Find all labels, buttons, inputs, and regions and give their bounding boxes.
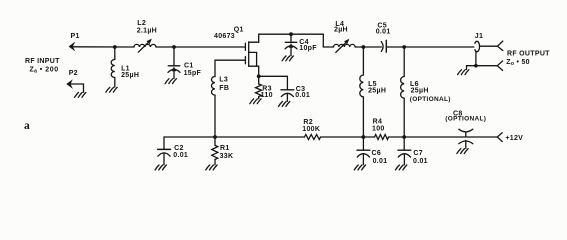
svg-text:100: 100 [372,126,385,133]
ground (C3) [279,102,290,107]
resistor R3 [256,76,273,99]
ground (C6) [354,165,365,170]
inductor L1 [111,47,139,87]
wire L2 to gate 2 [156,46,245,48]
resistor R4 [372,119,389,140]
ground (C4) [282,56,293,61]
svg-text:C7: C7 [413,150,423,157]
svg-text:2.1µH: 2.1µH [137,28,157,35]
wire source to C3 [259,76,288,90]
wire bottom rail left [164,136,305,138]
svg-text:RF OUTPUT: RF OUTPUT [507,51,550,58]
svg-text:0.01: 0.01 [373,158,388,165]
svg-text:+12V: +12V [505,135,523,142]
wire node to R4 [363,136,374,138]
svg-text:FB: FB [219,85,229,92]
ground (L1) [106,87,117,92]
connector P1 [69,33,80,51]
capacitor C4 (variable) [285,34,317,56]
wire P1 to L2 [73,46,135,48]
svg-text:40673: 40673 [214,33,235,40]
node B (L6 tap) [402,45,406,49]
inductor L6 (optional) [401,47,451,137]
inductor L4 (variable) [334,21,356,52]
svg-text:0.01: 0.01 [173,152,188,159]
svg-text:C6: C6 [372,150,382,157]
wire gate 1 to L3 [215,60,245,76]
svg-text:Zo • 50: Zo • 50 [506,59,530,67]
svg-text:R1: R1 [220,145,230,152]
svg-text:0.01: 0.01 [413,158,428,165]
+12V supply pin [497,133,523,142]
capacitor C1 (variable) [168,47,202,79]
node (J1 shield) [474,64,478,68]
svg-text:J1: J1 [475,33,483,40]
ground (P2) [75,92,86,97]
ground (C2) [155,165,166,170]
svg-text:10pF: 10pF [299,45,317,52]
svg-text:L3: L3 [219,77,228,84]
node (L1 tap) [113,45,117,49]
capacitor C3 [281,86,310,101]
wire to L4 [323,46,333,48]
ground (C8) [457,149,468,154]
svg-text:P1: P1 [71,33,80,40]
svg-text:R2: R2 [303,119,313,126]
node (C4 tap) [289,32,293,36]
node (C7 tap) [402,135,406,139]
svg-text:Za • 200: Za • 200 [30,67,59,75]
svg-text:a: a [24,120,30,132]
svg-text:33K: 33K [220,153,234,160]
wire R2 to node [321,136,364,138]
svg-text:RF INPUT: RF INPUT [25,58,60,65]
resistor R2 [302,119,320,140]
svg-text:Q1: Q1 [234,26,244,33]
ground (J1) [458,70,469,75]
svg-text:2µH: 2µH [334,26,348,33]
resistor R1 [212,137,234,165]
capacitor C8 (optional feedthrough) [445,110,486,148]
node (source) [257,74,261,78]
wire drain top rail [259,34,324,47]
svg-text:P2: P2 [69,70,78,77]
svg-text:25µH: 25µH [411,87,429,94]
wire R4 to node [389,136,405,138]
ground (C1) [165,79,176,84]
inductor L2 (variable) [134,20,157,52]
node (R1 tap) [213,135,217,139]
wire bottom rail right [404,136,497,138]
node (C6 tap) [362,135,366,139]
inductor L3 (ferrite bead) [211,77,229,96]
svg-text:100K: 100K [302,126,320,133]
ground (R1) [206,165,217,170]
wire C5 to J1 [386,46,474,48]
svg-text:C1: C1 [184,62,194,69]
svg-text:L2: L2 [137,20,146,27]
transistor Q1 40673 dual-gate MOSFET [214,26,259,75]
inductor L5 [360,47,386,137]
connector P2 [66,70,83,92]
svg-text:25µH: 25µH [368,88,386,95]
capacitor C6 [357,137,387,165]
svg-text:(OPTIONAL): (OPTIONAL) [445,116,486,123]
svg-text:15pF: 15pF [184,70,202,77]
wire L4 to C5 [355,46,381,48]
connector J1 [467,33,503,70]
svg-text:0.01: 0.01 [295,92,310,99]
svg-text:25µH: 25µH [121,72,139,79]
ground (C7) [396,165,407,170]
capacitor C5 [376,22,391,52]
svg-text:C2: C2 [174,145,184,152]
node A (L5 tap) [362,45,366,49]
capacitor C2 [158,137,189,165]
svg-text:0.01: 0.01 [376,28,391,35]
svg-text:110: 110 [261,92,273,99]
node (C1 tap) [172,45,176,49]
wire L3 to bottom rail [214,95,216,137]
ground (R3) [250,99,261,104]
capacitor C7 [398,137,428,165]
svg-text:(OPTIONAL): (OPTIONAL) [410,96,451,103]
